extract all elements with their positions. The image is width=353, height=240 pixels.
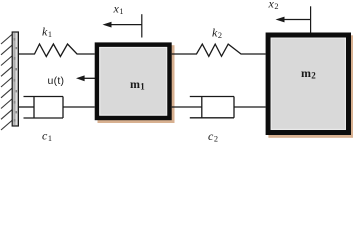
mass m1 shadow (98, 45, 175, 123)
mass m2 (268, 35, 348, 133)
force arrow u(t) wire (80, 77, 96, 79)
x1 arrow wire (107, 24, 142, 26)
mass m1 (97, 45, 170, 118)
wall bar (12, 32, 18, 126)
x1 arrow head (103, 22, 112, 28)
mass m2 shadow (268, 35, 353, 138)
svg-text:x2: x2 (268, 0, 279, 11)
spring k2 (172, 44, 266, 56)
x1 reference line (141, 14, 143, 37)
x2 arrow wire (280, 19, 311, 21)
svg-text:u(t): u(t) (48, 75, 65, 87)
x2 arrow head (276, 17, 285, 23)
x2 reference line (310, 6, 312, 32)
damper c1 (18, 97, 95, 119)
wall hatching (1, 34, 13, 130)
damper c2 (172, 97, 266, 118)
force arrow u(t) head (76, 75, 85, 81)
spring k1 (18, 44, 95, 57)
